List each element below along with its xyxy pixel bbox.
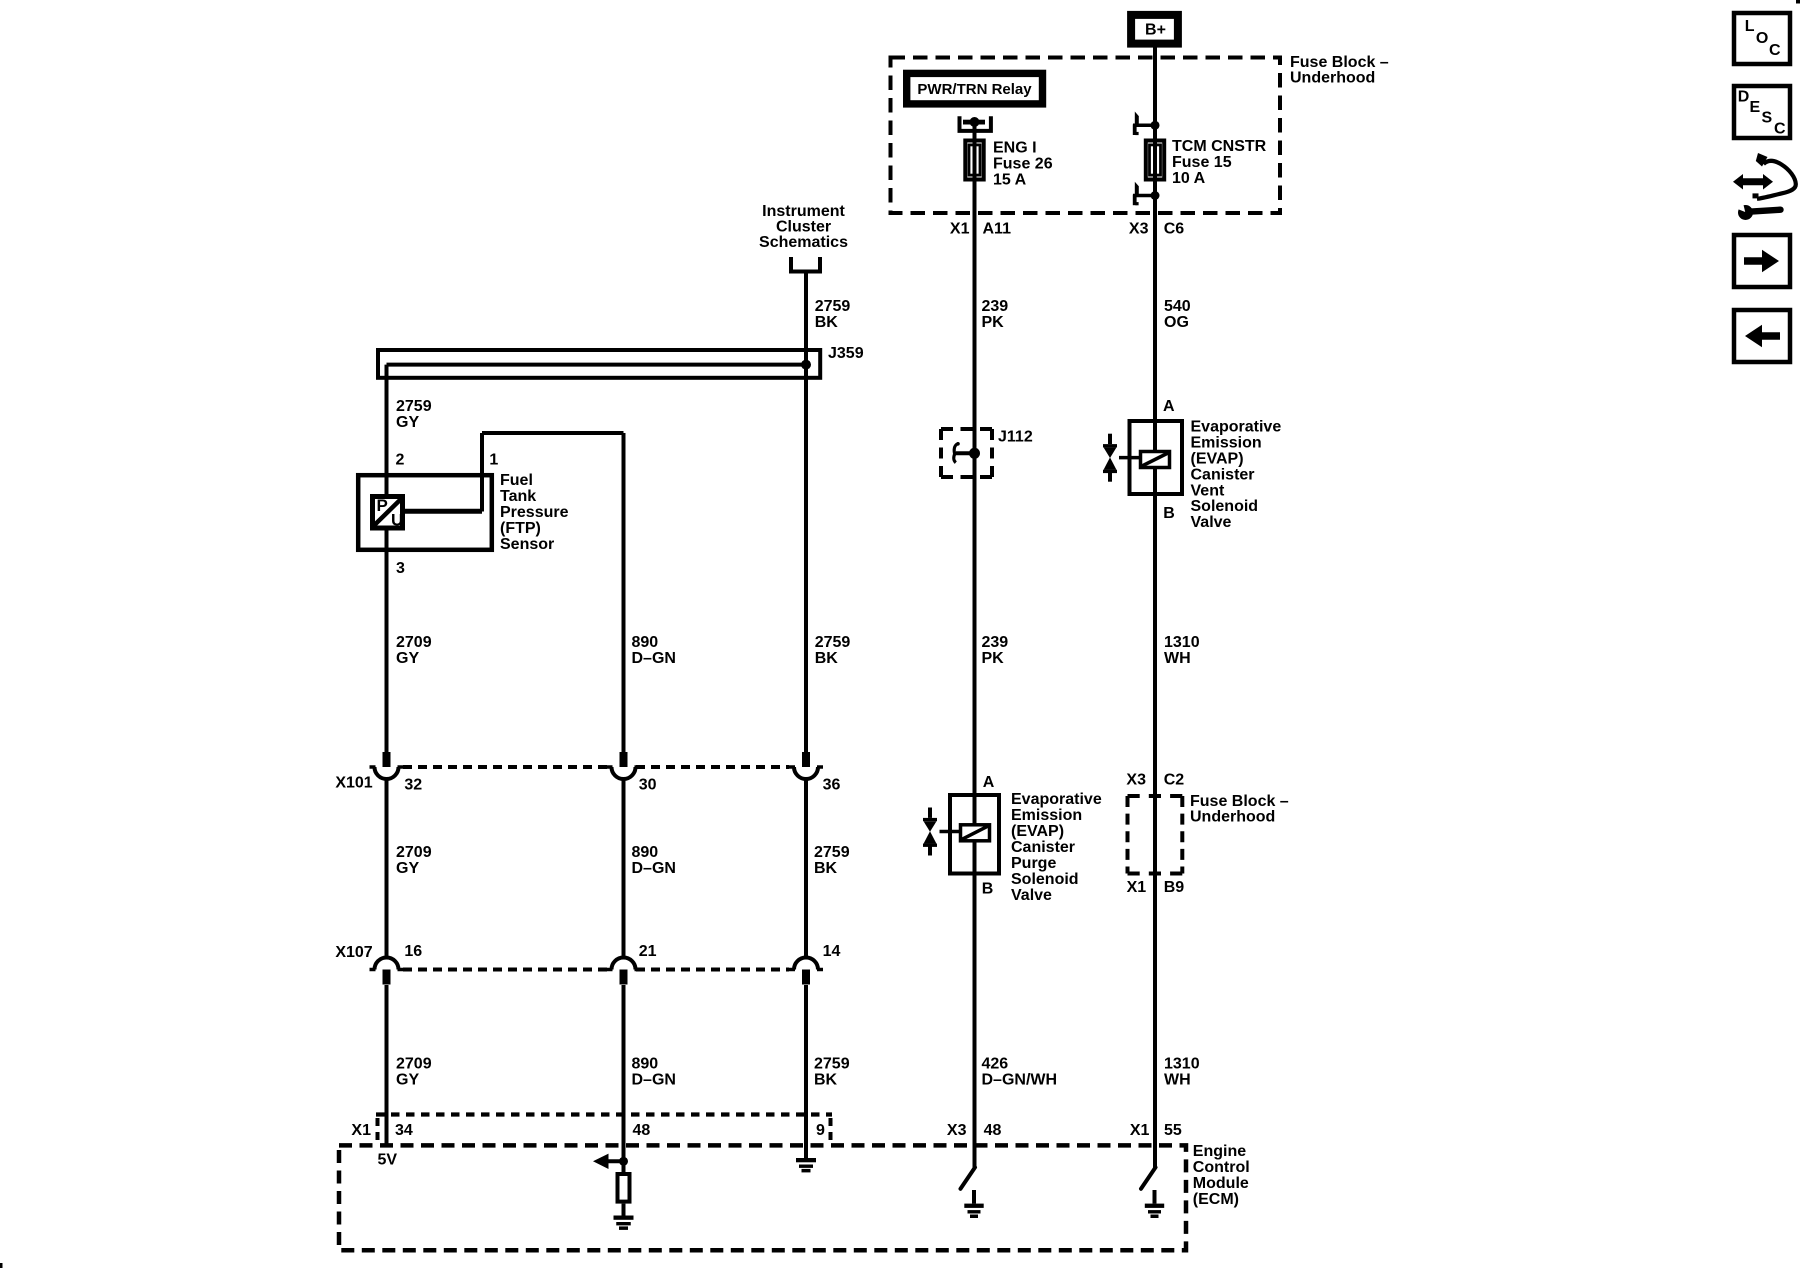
svg-text:Pressure: Pressure xyxy=(500,504,569,521)
svg-text:1: 1 xyxy=(489,451,498,468)
svg-text:Tank: Tank xyxy=(500,488,536,505)
svg-text:X1: X1 xyxy=(351,1122,371,1139)
svg-text:U: U xyxy=(391,511,403,530)
svg-text:B: B xyxy=(982,881,994,898)
svg-text:890: 890 xyxy=(632,844,659,861)
svg-text:10 A: 10 A xyxy=(1172,170,1206,187)
svg-text:16: 16 xyxy=(404,943,422,960)
svg-text:2709: 2709 xyxy=(396,844,432,861)
svg-text:Evaporative: Evaporative xyxy=(1191,419,1282,436)
svg-text:1310: 1310 xyxy=(1164,1056,1200,1073)
svg-text:D–GN/WH: D–GN/WH xyxy=(982,1072,1058,1089)
svg-text:B: B xyxy=(1163,505,1175,522)
svg-text:C6: C6 xyxy=(1164,221,1185,238)
svg-text:X1: X1 xyxy=(950,221,970,238)
svg-text:BK: BK xyxy=(815,314,839,331)
svg-text:2759: 2759 xyxy=(814,1056,850,1073)
svg-text:D–GN: D–GN xyxy=(632,860,676,877)
svg-text:Schematics: Schematics xyxy=(759,234,848,251)
svg-text:ENG I: ENG I xyxy=(993,140,1037,157)
svg-text:2: 2 xyxy=(396,451,405,468)
svg-text:PK: PK xyxy=(982,314,1005,331)
svg-text:B9: B9 xyxy=(1164,879,1185,896)
svg-text:C2: C2 xyxy=(1164,772,1185,789)
svg-text:WH: WH xyxy=(1164,1072,1191,1089)
svg-text:36: 36 xyxy=(823,777,841,794)
svg-text:(FTP): (FTP) xyxy=(500,520,541,537)
svg-text:TCM CNSTR: TCM CNSTR xyxy=(1172,138,1267,155)
svg-text:1310: 1310 xyxy=(1164,634,1200,651)
svg-text:Instrument: Instrument xyxy=(762,203,845,220)
svg-text:X1: X1 xyxy=(1130,1122,1150,1139)
svg-text:Fuse 26: Fuse 26 xyxy=(993,156,1053,173)
svg-text:Fuse Block –: Fuse Block – xyxy=(1290,54,1389,71)
svg-text:9: 9 xyxy=(816,1122,825,1139)
svg-text:GY: GY xyxy=(396,414,419,431)
svg-text:S: S xyxy=(1762,110,1773,127)
svg-text:5V: 5V xyxy=(378,1152,398,1169)
svg-text:Engine: Engine xyxy=(1193,1143,1246,1160)
svg-text:Fuse 15: Fuse 15 xyxy=(1172,154,1232,171)
svg-text:2709: 2709 xyxy=(396,634,432,651)
svg-text:P: P xyxy=(377,496,388,515)
svg-text:Sensor: Sensor xyxy=(500,536,554,553)
svg-text:(EVAP): (EVAP) xyxy=(1011,823,1064,840)
svg-text:L: L xyxy=(1745,18,1755,35)
svg-text:X3: X3 xyxy=(947,1122,967,1139)
svg-text:30: 30 xyxy=(639,777,657,794)
svg-text:2759: 2759 xyxy=(815,298,851,315)
svg-text:Solenoid: Solenoid xyxy=(1011,871,1079,888)
svg-text:A: A xyxy=(1163,398,1175,415)
svg-text:PK: PK xyxy=(982,650,1005,667)
svg-text:3: 3 xyxy=(396,560,405,577)
svg-text:2759: 2759 xyxy=(814,844,850,861)
svg-text:BK: BK xyxy=(814,860,838,877)
svg-text:(ECM): (ECM) xyxy=(1193,1191,1239,1208)
svg-text:Canister: Canister xyxy=(1191,466,1255,483)
svg-text:E: E xyxy=(1750,99,1761,116)
svg-text:X101: X101 xyxy=(335,775,372,792)
svg-text:34: 34 xyxy=(395,1122,413,1139)
svg-text:Purge: Purge xyxy=(1011,855,1056,872)
svg-text:Valve: Valve xyxy=(1191,514,1232,531)
svg-text:O: O xyxy=(1756,30,1768,47)
svg-text:Fuel: Fuel xyxy=(500,472,533,489)
svg-text:32: 32 xyxy=(404,777,422,794)
svg-text:Control: Control xyxy=(1193,1159,1250,1176)
svg-text:D: D xyxy=(1738,89,1750,106)
svg-text:2759: 2759 xyxy=(396,398,432,415)
svg-text:48: 48 xyxy=(633,1122,651,1139)
svg-text:Underhood: Underhood xyxy=(1290,70,1375,87)
svg-text:X3: X3 xyxy=(1129,221,1149,238)
svg-text:BK: BK xyxy=(815,650,839,667)
svg-text:14: 14 xyxy=(823,943,841,960)
svg-text:PWR/TRN Relay: PWR/TRN Relay xyxy=(917,81,1032,98)
svg-text:A: A xyxy=(983,774,995,791)
svg-text:Valve: Valve xyxy=(1011,887,1052,904)
svg-text:OG: OG xyxy=(1164,314,1189,331)
svg-text:Emission: Emission xyxy=(1191,435,1262,452)
svg-text:A11: A11 xyxy=(983,221,1012,238)
svg-text:Underhood: Underhood xyxy=(1190,809,1275,826)
svg-text:C: C xyxy=(1774,121,1786,138)
svg-text:X107: X107 xyxy=(335,944,372,961)
svg-text:C: C xyxy=(1769,42,1781,59)
svg-text:J112: J112 xyxy=(998,429,1033,446)
svg-text:Module: Module xyxy=(1193,1175,1249,1192)
svg-text:Canister: Canister xyxy=(1011,839,1075,856)
svg-text:Fuse Block –: Fuse Block – xyxy=(1190,793,1289,810)
svg-text:X3: X3 xyxy=(1126,772,1146,789)
svg-text:55: 55 xyxy=(1164,1122,1182,1139)
svg-text:2709: 2709 xyxy=(396,1056,432,1073)
svg-text:Evaporative: Evaporative xyxy=(1011,791,1102,808)
svg-text:21: 21 xyxy=(639,943,657,960)
svg-text:540: 540 xyxy=(1164,298,1191,315)
svg-text:J359: J359 xyxy=(828,345,864,362)
svg-text:15 A: 15 A xyxy=(993,172,1027,189)
svg-text:(EVAP): (EVAP) xyxy=(1191,451,1244,468)
svg-text:239: 239 xyxy=(982,634,1009,651)
svg-text:48: 48 xyxy=(984,1122,1002,1139)
svg-text:GY: GY xyxy=(396,1072,419,1089)
svg-text:890: 890 xyxy=(632,1056,659,1073)
svg-text:GY: GY xyxy=(396,860,419,877)
svg-text:WH: WH xyxy=(1164,650,1191,667)
svg-text:Emission: Emission xyxy=(1011,807,1082,824)
svg-text:B+: B+ xyxy=(1145,22,1166,39)
svg-text:D–GN: D–GN xyxy=(632,650,676,667)
svg-text:239: 239 xyxy=(982,298,1009,315)
svg-text:GY: GY xyxy=(396,650,419,667)
svg-text:890: 890 xyxy=(632,634,659,651)
svg-text:2759: 2759 xyxy=(815,634,851,651)
svg-text:BK: BK xyxy=(814,1072,838,1089)
svg-text:Vent: Vent xyxy=(1191,482,1225,499)
svg-text:426: 426 xyxy=(982,1056,1009,1073)
svg-text:D–GN: D–GN xyxy=(632,1072,676,1089)
svg-text:Cluster: Cluster xyxy=(776,218,831,235)
svg-text:Solenoid: Solenoid xyxy=(1191,498,1259,515)
svg-text:X1: X1 xyxy=(1127,879,1147,896)
